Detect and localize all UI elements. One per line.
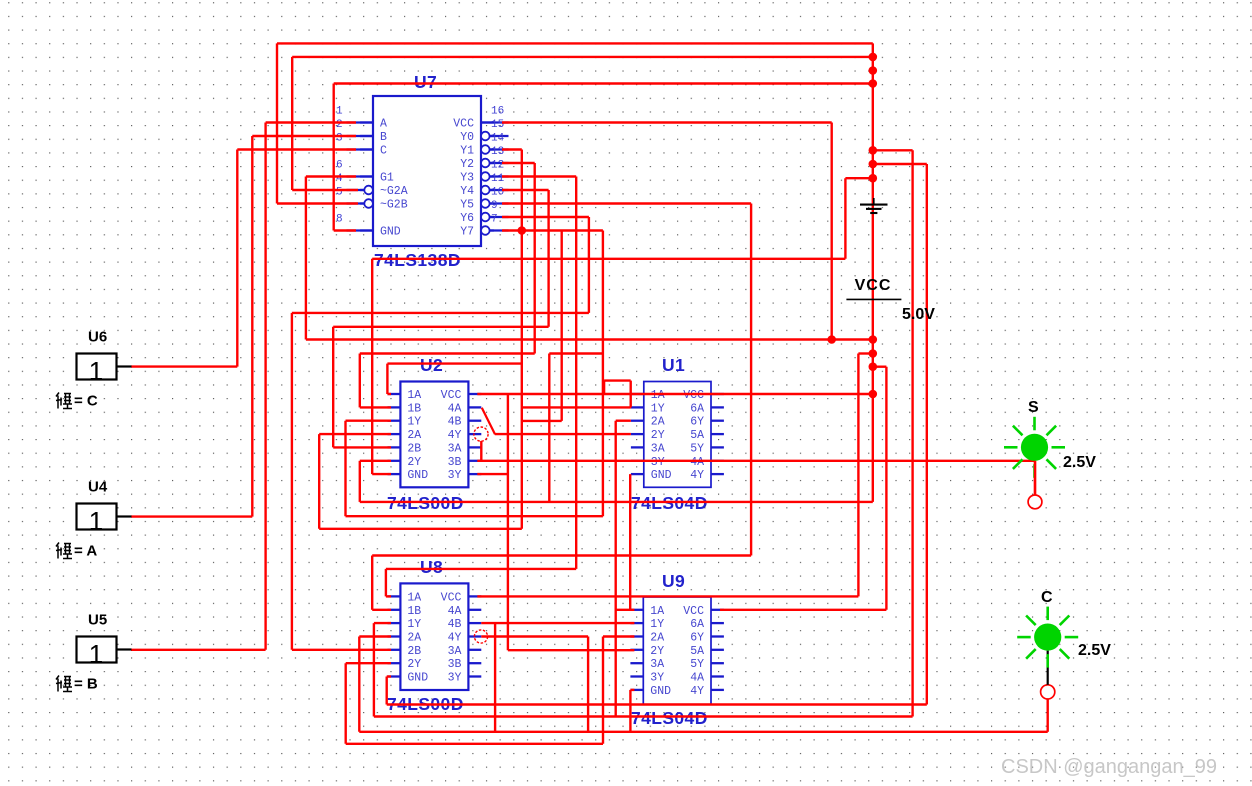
wire hook top — [604, 379, 631, 381]
svg-text:GND: GND — [651, 469, 672, 482]
wire into U8.1Y pin — [374, 622, 391, 624]
wire long horizontal y259 — [372, 258, 845, 260]
wire U9 GND drop — [629, 690, 631, 732]
wire into U1.2A pin — [616, 420, 631, 422]
wire U8.4B branch drop — [494, 623, 496, 732]
IC U1 74LS04D body — [644, 382, 711, 488]
wire ~G2B riser — [276, 43, 278, 203]
wire into U2 GND pin — [372, 473, 391, 475]
svg-text:GND: GND — [650, 685, 671, 698]
svg-text:3B: 3B — [448, 658, 462, 671]
pin stub U1.2Y — [631, 433, 644, 435]
wire Y3 vertical — [575, 177, 577, 569]
wire U2.1B drop — [359, 354, 361, 408]
wire U2.3Y riser — [507, 394, 509, 650]
pin stub U7.VCC — [481, 121, 494, 123]
pin stub U2.3A — [468, 446, 481, 448]
pin stub U9.1Y — [630, 622, 643, 624]
svg-text:VCC: VCC — [855, 277, 892, 294]
U7 ~G2A pin stub with bubble — [347, 189, 365, 191]
pin stub U9.1A — [630, 609, 643, 611]
pin stub U1.3Y — [631, 460, 644, 462]
wire Y3 to U8.1A — [386, 568, 576, 570]
wire key B vertical — [264, 123, 266, 650]
junction dots — [869, 53, 878, 62]
wire vertical x912 — [911, 150, 913, 716]
svg-text:U9: U9 — [662, 571, 685, 591]
pin stub U2.4A — [468, 406, 481, 408]
pin stub U2.4Y — [468, 433, 481, 435]
svg-text:2Y: 2Y — [650, 645, 664, 658]
wire U8.2B drop — [291, 313, 293, 650]
wire U9 VCC riser — [885, 367, 887, 610]
pin stub U2.2Y — [388, 460, 401, 462]
wire U8.1Y drop — [373, 623, 375, 716]
wire Y5 vertical — [750, 204, 752, 556]
wire Y7 branch vertical — [561, 231, 563, 421]
svg-text:6: 6 — [336, 160, 343, 172]
pin stub U1.1Y — [631, 406, 644, 408]
svg-text:VCC: VCC — [683, 605, 704, 618]
open terminal circle at U8.4Y — [474, 630, 487, 643]
svg-text:1: 1 — [336, 106, 343, 118]
pin stub U8.1Y — [388, 622, 401, 624]
wire U2.2Y drop — [359, 461, 361, 502]
indicator probe C body — [1034, 624, 1061, 651]
svg-text:2Y: 2Y — [407, 658, 421, 671]
svg-text:C: C — [380, 145, 387, 158]
wire U8.4Y drop — [587, 637, 589, 732]
wire Y4 west run — [333, 326, 548, 328]
pin stub U9.GND — [630, 689, 643, 691]
svg-text:2.5V: 2.5V — [1078, 642, 1111, 659]
pin stub U8.2B — [388, 649, 401, 651]
wire U8.4B to U9.1Y — [481, 622, 634, 624]
wire into U2.2B pin — [333, 446, 391, 448]
wire U8 GND long east run — [387, 703, 927, 705]
svg-text:1Y: 1Y — [407, 416, 421, 429]
pin stub U7.Y3 — [481, 175, 494, 177]
wire Y7 vertical — [602, 231, 604, 517]
wire hook left leg — [603, 381, 605, 394]
pin stub U1.1A — [631, 393, 644, 395]
svg-text:~G2A: ~G2A — [380, 185, 408, 198]
key U6 pin stub — [117, 365, 132, 367]
svg-text:6Y: 6Y — [690, 632, 704, 645]
pin stub U1.5A — [711, 433, 724, 435]
svg-text:Y1: Y1 — [460, 145, 474, 158]
wire into U8 GND pin — [387, 675, 391, 677]
svg-text:2.5V: 2.5V — [1063, 454, 1096, 471]
wire U8.2A drop — [358, 637, 360, 732]
svg-text:2B: 2B — [407, 645, 421, 658]
pin stub U7.A — [360, 121, 373, 123]
wire into ~G2A pin — [292, 189, 358, 191]
svg-text:10: 10 — [491, 187, 504, 199]
wire U8.1Y long east run — [374, 715, 913, 717]
svg-text:1Y: 1Y — [650, 618, 664, 631]
pin stub U9.3Y — [630, 675, 643, 677]
svg-text:U2: U2 — [420, 355, 443, 375]
pin stub U1.4Y — [711, 473, 724, 475]
svg-text:2Y: 2Y — [651, 429, 665, 442]
svg-text:5Y: 5Y — [690, 442, 704, 455]
IC U7 74LS138D body — [373, 96, 481, 246]
wire W drop — [548, 354, 550, 502]
pin stub U9.2Y — [630, 649, 643, 651]
pin stub U1.6Y — [711, 420, 724, 422]
svg-text:VCC: VCC — [453, 118, 474, 131]
wire into ~G2B pin — [277, 202, 358, 204]
pin stub U8.2Y — [388, 662, 401, 664]
pin stub U8.3A — [468, 649, 481, 651]
wire branch right upper — [873, 149, 913, 151]
wire Y6 vertical — [588, 217, 590, 313]
wire U2.4Y to 3B tie — [480, 441, 482, 461]
wire U1.2A riser — [615, 421, 617, 717]
open terminal circle below probe S — [1028, 495, 1042, 509]
key switch U4 body — [77, 504, 117, 530]
svg-text:3Y: 3Y — [448, 469, 462, 482]
svg-text:5A: 5A — [690, 645, 704, 658]
wire net GND top-3 — [334, 82, 873, 84]
pin stub U9.5Y — [711, 662, 724, 664]
svg-text:Y5: Y5 — [460, 199, 474, 212]
wire gnd stub link — [845, 177, 872, 179]
wire gnd link drop — [844, 178, 846, 259]
key U4 caption glyph — [56, 543, 72, 559]
svg-text:1Y: 1Y — [407, 618, 421, 631]
svg-text:1A: 1A — [407, 591, 421, 604]
wire net GND top-2 — [292, 56, 873, 58]
pin stub U9.6A — [711, 622, 724, 624]
wire U8.4Y east run — [481, 635, 588, 637]
svg-text:2A: 2A — [407, 632, 421, 645]
wire U9 VCC run — [720, 609, 886, 611]
svg-text:2B: 2B — [407, 442, 421, 455]
wire U9.2A drop — [602, 637, 604, 744]
svg-text:A: A — [380, 118, 387, 131]
wire U7 pin15 drop — [831, 123, 833, 340]
key U4 pin stub — [117, 515, 132, 517]
wire U2.2A drop — [318, 434, 320, 529]
wire net C long run — [359, 731, 1047, 733]
svg-text:4A: 4A — [690, 456, 704, 469]
pin stub U7.GND — [360, 229, 373, 231]
wire key C vertical — [236, 150, 238, 367]
svg-text:3A: 3A — [448, 645, 462, 658]
svg-text:2A: 2A — [651, 416, 665, 429]
svg-text:4A: 4A — [448, 605, 462, 618]
pin stub U9.5A — [711, 649, 724, 651]
svg-text:4Y: 4Y — [690, 685, 704, 698]
svg-text:GND: GND — [407, 469, 428, 482]
svg-text:3A: 3A — [651, 442, 665, 455]
wire U8.1B drop — [371, 556, 373, 610]
svg-text:G1: G1 — [380, 172, 394, 185]
key U5 pin stub — [117, 648, 132, 650]
wire Y7 to U2.1Y — [346, 515, 603, 517]
wire into U8.1B pin — [372, 609, 391, 611]
wire Y2 vertical — [534, 163, 536, 354]
pin stub U7.B — [360, 135, 373, 137]
svg-text:6Y: 6Y — [690, 416, 704, 429]
wire into U7 G1 pin — [306, 175, 356, 177]
wire into U2.1Y pin — [346, 420, 392, 422]
svg-text:4B: 4B — [448, 416, 462, 429]
wire U8.1A drop — [385, 569, 387, 597]
wire U8 GND drop — [386, 677, 388, 705]
svg-text:4Y: 4Y — [448, 429, 462, 442]
wire VCC riser link — [858, 352, 872, 354]
wire U2.3Y out — [477, 473, 508, 475]
probe C black pin — [1047, 651, 1049, 685]
wire probe S drop overlay — [1034, 461, 1036, 495]
wire U2.2Y long east run — [360, 501, 873, 503]
pin stub U1.3A — [631, 446, 644, 448]
wire Y4 out — [502, 189, 549, 191]
pin stub U7.Y1 — [481, 148, 494, 150]
key U6 caption glyph — [56, 393, 72, 409]
wire ~G2A riser — [291, 57, 293, 190]
pin stub U8.4B — [468, 622, 481, 624]
wire Y1 vertical — [521, 150, 523, 529]
wire U8 VCC riser — [857, 354, 859, 597]
pin stub U2.4B — [468, 420, 481, 422]
wire U2.1A drop — [386, 364, 388, 394]
pin stub U1.GND — [631, 473, 644, 475]
svg-text:5.0V: 5.0V — [902, 306, 935, 323]
pin stub U7.Y5 — [481, 202, 494, 204]
svg-text:74LS04D: 74LS04D — [631, 708, 708, 728]
svg-text:U8: U8 — [420, 557, 443, 577]
pin stub U9.VCC — [711, 609, 724, 611]
svg-text:2A: 2A — [650, 632, 664, 645]
wire U7 GND drop — [333, 84, 335, 231]
svg-text:4: 4 — [336, 173, 343, 185]
wire Y3 out — [502, 175, 576, 177]
U7 left pin stubs — [347, 121, 374, 123]
U7 ~G2B pin stub with bubble — [347, 202, 365, 204]
U7 VCC pin stub — [481, 121, 509, 123]
wire into U7 GND pin — [334, 229, 356, 231]
pin stub U8.1A — [388, 595, 401, 597]
indicator probe S rays — [1004, 417, 1065, 478]
svg-text:6A: 6A — [690, 402, 704, 415]
svg-text:11: 11 — [491, 173, 505, 185]
svg-text:U6: U6 — [88, 329, 107, 346]
wire Y5 out — [502, 202, 751, 204]
U7 Y0-Y7 pin stubs with bubbles — [481, 132, 490, 141]
pin stub U9.3A — [630, 662, 643, 664]
wire G1 drop — [305, 177, 307, 340]
svg-text:U4: U4 — [88, 479, 108, 496]
IC U9 74LS04D body — [643, 597, 711, 704]
wire U2 VCC long run — [477, 393, 873, 395]
indicator probe C rays — [1017, 607, 1078, 668]
wire from key U6 — [131, 365, 237, 367]
wire main vertical bus — [872, 43, 874, 502]
pin stub U8.1B — [388, 609, 401, 611]
svg-text:4Y: 4Y — [690, 469, 704, 482]
svg-text:3A: 3A — [448, 442, 462, 455]
wire U2.4A diagonal segment — [482, 408, 495, 435]
key switch U6 body — [77, 354, 117, 380]
svg-text:1A: 1A — [651, 389, 665, 402]
svg-text:= B: = B — [74, 676, 98, 693]
pin stub U2.1Y — [388, 420, 401, 422]
svg-text:U7: U7 — [414, 72, 437, 92]
pin stub U7.Y4 — [481, 189, 494, 191]
wire hook right leg — [630, 381, 632, 408]
wire into U8.2Y pin — [346, 662, 391, 664]
wire U2.2A east run — [319, 528, 522, 530]
wire bottom run y744 — [346, 743, 603, 745]
wire into U9 GND pin — [630, 689, 634, 691]
wire into U7 A pin — [266, 121, 356, 123]
IC U2 74LS00D body — [400, 382, 468, 488]
open terminal circle at U2.4Y — [474, 427, 488, 441]
pin stub U7.C — [360, 148, 373, 150]
pin stub U2.1B — [388, 406, 401, 408]
wire probe S drop — [1034, 461, 1036, 495]
wire U1.1Y feed — [522, 406, 631, 408]
pin stub U2.3Y — [468, 473, 481, 475]
svg-text:1Y: 1Y — [651, 402, 665, 415]
pin stub U9.6Y — [711, 635, 724, 637]
wire into U2.1A pin — [387, 393, 391, 395]
svg-text:Y4: Y4 — [460, 185, 474, 198]
pin stub U7.~G2B — [360, 202, 373, 204]
wire probe C tail — [1046, 699, 1048, 732]
wire Y5 to U8.1B — [372, 554, 751, 556]
pin stub U1.4A — [711, 460, 724, 462]
svg-text:Y6: Y6 — [460, 212, 474, 225]
wire U7 pin15 VCC — [502, 121, 832, 123]
wire into U9.2A pin — [603, 635, 634, 637]
pin stub U1.VCC — [711, 393, 724, 395]
svg-text:4B: 4B — [448, 618, 462, 631]
wire into U2.2A pin — [319, 433, 391, 435]
svg-text:12: 12 — [491, 160, 504, 172]
wire into U8.2A pin — [359, 635, 391, 637]
wire G1 to VCC rail — [306, 338, 873, 340]
svg-text:2Y: 2Y — [407, 456, 421, 469]
svg-text:5Y: 5Y — [690, 658, 704, 671]
svg-text:= C: = C — [74, 393, 98, 410]
svg-text:4Y: 4Y — [448, 632, 462, 645]
pin stub U9.2A — [630, 635, 643, 637]
wire from key U4 — [131, 515, 252, 517]
wire U1 GND drop — [629, 474, 631, 610]
pin stub U1.2A — [631, 420, 644, 422]
svg-text:3Y: 3Y — [651, 456, 665, 469]
pin stub U7.G1 — [360, 175, 373, 177]
pin stub U8.3Y — [468, 675, 481, 677]
wire into U7 C pin — [237, 148, 356, 150]
svg-text:Y2: Y2 — [460, 158, 474, 171]
wire branch right lower — [873, 163, 927, 165]
ground symbol — [860, 198, 888, 213]
pin stub U1.5Y — [711, 446, 724, 448]
pin stub U8.4A — [468, 609, 481, 611]
wire Y1 to U2.1A — [387, 362, 521, 364]
svg-text:Y3: Y3 — [460, 172, 474, 185]
wire net GND top-1 — [277, 42, 873, 44]
svg-text:GND: GND — [380, 226, 401, 239]
svg-text:GND: GND — [407, 672, 428, 685]
pin stub U2.1A — [388, 393, 401, 395]
pin stub U1.6A — [711, 406, 724, 408]
wire key A vertical — [251, 136, 253, 517]
pin stub U8.2A — [388, 635, 401, 637]
svg-text:13: 13 — [491, 146, 504, 158]
svg-text:3Y: 3Y — [448, 672, 462, 685]
svg-text:U1: U1 — [662, 355, 685, 375]
pin stub U2.3B — [468, 460, 481, 462]
svg-text:1A: 1A — [407, 389, 421, 402]
indicator probe S body — [1021, 434, 1048, 461]
svg-text:S: S — [1028, 399, 1039, 416]
svg-text:1: 1 — [89, 639, 103, 669]
wire into U8.2B pin — [292, 649, 391, 651]
svg-text:74LS138D: 74LS138D — [374, 250, 461, 270]
wire branch stub y421 — [522, 420, 562, 422]
pin stub U8.VCC — [468, 595, 481, 597]
wire U2.1Y drop — [344, 421, 346, 517]
svg-text:2: 2 — [336, 119, 343, 131]
svg-text:VCC: VCC — [683, 389, 704, 402]
svg-text:B: B — [380, 131, 387, 144]
wire Y2 out — [502, 162, 535, 164]
wire vertical x927 — [926, 164, 928, 705]
svg-text:1B: 1B — [407, 402, 421, 415]
wire Y7 out — [502, 229, 603, 231]
svg-text:= A: = A — [74, 543, 97, 560]
key U5 caption glyph — [56, 676, 72, 692]
svg-text:3: 3 — [336, 133, 343, 145]
pin stub U7.Y6 — [481, 216, 494, 218]
wire into U9.1A pin — [616, 609, 635, 611]
wire Y6 out — [502, 216, 589, 218]
svg-text:4A: 4A — [690, 672, 704, 685]
wire drop to U2 GND — [371, 259, 373, 474]
svg-text:8: 8 — [336, 214, 343, 226]
IC U8 74LS00D body — [400, 583, 468, 690]
svg-text:16: 16 — [491, 106, 504, 118]
pin stub U2.2A — [388, 433, 401, 435]
svg-text:Y7: Y7 — [460, 226, 474, 239]
svg-text:Y0: Y0 — [460, 131, 474, 144]
svg-text:6A: 6A — [690, 618, 704, 631]
svg-text:1: 1 — [89, 356, 103, 386]
svg-text:4A: 4A — [448, 402, 462, 415]
pin stub U9.4Y — [711, 689, 724, 691]
pin stub U2.VCC — [468, 393, 481, 395]
svg-text:1: 1 — [89, 506, 103, 536]
svg-text:1B: 1B — [407, 605, 421, 618]
wire U8 VCC run — [477, 595, 858, 597]
pin stub U8.4Y — [468, 635, 481, 637]
wire W east run — [549, 352, 603, 354]
wire branch y367 — [873, 366, 887, 368]
svg-text:U5: U5 — [88, 612, 107, 629]
svg-text:CSDN @gangangan_99: CSDN @gangangan_99 — [1001, 756, 1217, 778]
wire into U2.2Y pin — [360, 460, 391, 462]
pin stub U7.~G2A — [360, 189, 373, 191]
wire net S long run — [477, 460, 1035, 462]
wire Y6 west run — [292, 312, 589, 314]
